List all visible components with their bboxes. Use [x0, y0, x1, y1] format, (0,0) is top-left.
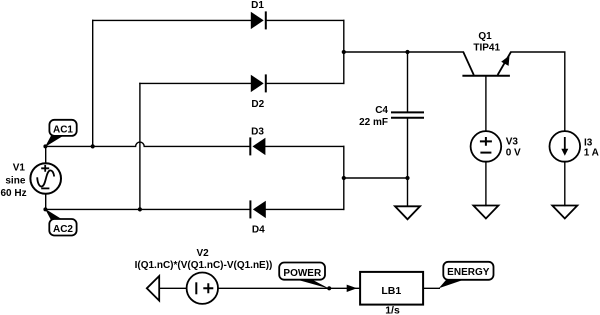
svg-text:Q1: Q1	[478, 31, 492, 42]
voltage source V1	[30, 163, 61, 194]
svg-text:1/s: 1/s	[385, 305, 400, 315]
voltage source V3	[471, 131, 502, 162]
label C4 value	[359, 105, 388, 128]
diode D3	[250, 137, 265, 155]
integrator block LB1	[360, 272, 423, 305]
svg-text:AC1: AC1	[53, 125, 73, 136]
svg-text:TIP41: TIP41	[473, 42, 500, 53]
wire right vertical joining D1 and D2 cathodes	[343, 20, 345, 83]
svg-text:D2: D2	[251, 99, 264, 110]
svg-text:22 mF: 22 mF	[359, 117, 388, 128]
transistor Q1	[462, 52, 511, 76]
input port arrow of lower block	[147, 276, 159, 301]
current source I3	[550, 131, 581, 162]
wire vertical from D1 row down to AC1 node	[92, 20, 94, 146]
diode D1	[251, 11, 266, 29]
junction C4 bottom	[405, 176, 409, 180]
svg-text:60 Hz: 60 Hz	[0, 188, 26, 199]
svg-text:V2: V2	[196, 248, 209, 259]
label V2 formula	[135, 248, 273, 271]
voltage source V2	[187, 273, 218, 304]
junction POWER tap	[327, 286, 331, 290]
wire lower tap to C4 branch	[344, 177, 408, 179]
wire rectifier output to Q1 collector	[344, 51, 464, 53]
wire D2 anode row	[140, 82, 251, 84]
wire D4 right segment	[266, 208, 344, 210]
capacitor C4	[391, 112, 424, 117]
wire Q1 base to V3 top	[485, 77, 487, 132]
wire V3 bottom lead to ground	[485, 162, 487, 206]
node POWER	[279, 263, 329, 289]
ground below V3	[473, 206, 498, 219]
svg-text:D3: D3	[251, 126, 264, 137]
svg-text:LB1: LB1	[381, 285, 401, 297]
wire AC1 row with hop over vertical wire	[46, 142, 251, 146]
svg-text:POWER: POWER	[283, 268, 322, 279]
wire V2 to LB1	[218, 287, 360, 289]
svg-text:C4: C4	[375, 105, 388, 116]
junction at D2 vertical and AC2 wire	[138, 207, 142, 211]
wire D1 anode row	[93, 19, 251, 21]
svg-text:ENERGY: ENERGY	[447, 267, 490, 278]
wire V1 top lead	[45, 146, 47, 163]
wire D2 cathode row	[266, 82, 344, 84]
label V3 value	[506, 137, 521, 159]
svg-text:V1: V1	[13, 163, 26, 174]
svg-text:I(Q1.nC)*(V(Q1.nC)-V(Q1.nE)): I(Q1.nC)*(V(Q1.nC)-V(Q1.nE))	[135, 260, 273, 271]
wire AC2 row	[46, 208, 251, 210]
arrowhead into LB1	[347, 285, 357, 292]
wire D3 cathode-side right segment	[265, 145, 343, 147]
node ENERGY	[439, 262, 494, 288]
ground below C4	[395, 206, 420, 219]
diode D2	[251, 74, 266, 92]
wire I3 bottom lead to ground	[564, 162, 566, 206]
node AC2	[43, 207, 76, 235]
wire right vertical joining D3 and D4	[343, 146, 345, 209]
svg-text:AC2: AC2	[53, 224, 73, 235]
svg-text:0 V: 0 V	[506, 148, 521, 159]
wire LB1 output	[423, 287, 440, 289]
diode D4	[250, 200, 265, 218]
svg-text:sine: sine	[5, 176, 25, 187]
wire C4 bottom lead to ground	[407, 118, 409, 206]
junction lower tap left	[342, 176, 346, 180]
ground below I3	[552, 206, 577, 219]
label V1 value	[0, 163, 26, 199]
node AC1	[43, 120, 76, 149]
svg-text:1 A: 1 A	[584, 148, 599, 159]
wire D1 cathode row	[266, 19, 344, 21]
wire C4 top lead	[407, 52, 409, 111]
svg-text:D1: D1	[251, 0, 264, 11]
wire V1 bottom lead	[45, 194, 47, 210]
label Q1	[473, 31, 500, 54]
svg-text:V3: V3	[506, 137, 519, 148]
wire Q1 emitter to I3 top	[511, 52, 565, 131]
junction at D1 vertical and AC1 wire	[91, 144, 95, 148]
wire port to V2	[159, 287, 186, 289]
junction rectifier output top left	[342, 50, 346, 54]
junction C4 top	[405, 50, 409, 54]
wire vertical from D2 row down to AC2 row	[139, 83, 141, 209]
svg-text:D4: D4	[252, 224, 265, 235]
label I3 value	[584, 137, 599, 158]
